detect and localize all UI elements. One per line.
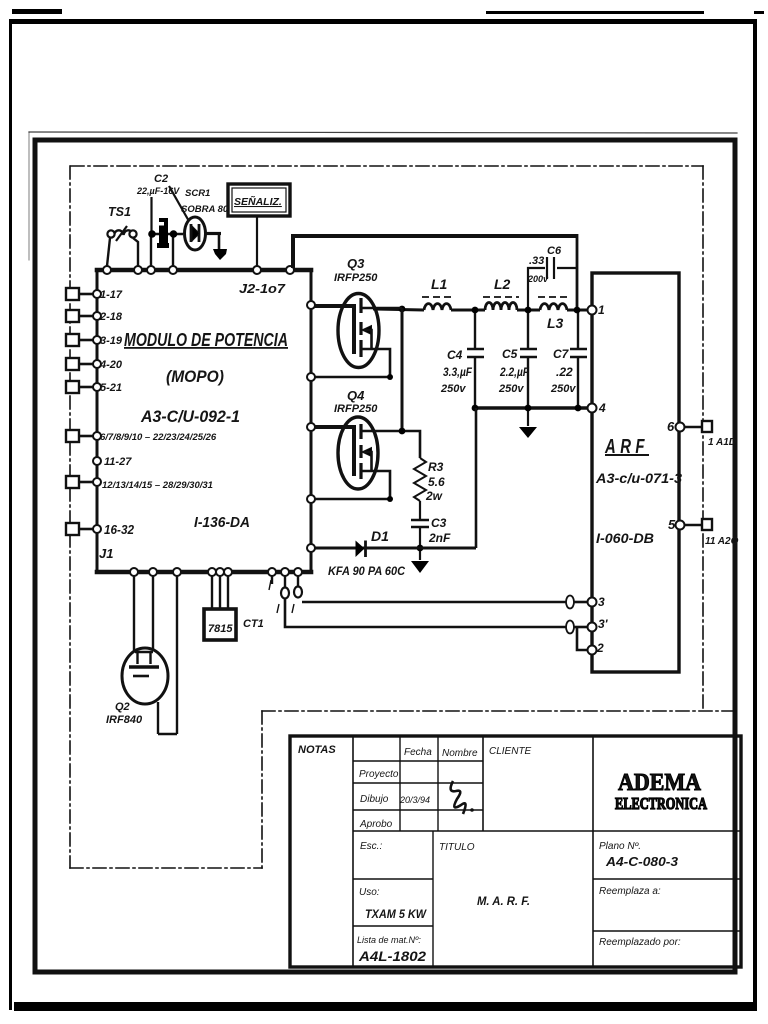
svg-text:A4L-1802: A4L-1802 — [358, 949, 427, 964]
svg-text:Q4: Q4 — [347, 388, 365, 403]
svg-text:2w: 2w — [425, 489, 443, 503]
svg-text:11-27: 11-27 — [104, 456, 132, 468]
svg-text:5-21: 5-21 — [100, 382, 122, 394]
svg-text:TITULO: TITULO — [439, 842, 475, 853]
svg-text:250v: 250v — [550, 383, 576, 395]
svg-text:3.3,µF: 3.3,µF — [443, 365, 473, 379]
svg-text:IRFP250: IRFP250 — [334, 403, 378, 415]
svg-text:250v: 250v — [498, 383, 524, 395]
svg-text:3-19: 3-19 — [100, 335, 123, 347]
svg-text:2.2,µF: 2.2,µF — [499, 365, 529, 379]
svg-text:3': 3' — [598, 617, 609, 631]
svg-text:Q3: Q3 — [347, 256, 365, 271]
svg-text:20/3/94: 20/3/94 — [399, 795, 430, 805]
svg-text:TXAM 5 KW: TXAM 5 KW — [365, 907, 428, 921]
svg-text:D1: D1 — [371, 528, 389, 544]
svg-text:250v: 250v — [440, 383, 466, 395]
svg-text:2nF: 2nF — [428, 531, 451, 545]
svg-text:3: 3 — [598, 595, 605, 609]
svg-text:L3: L3 — [547, 315, 564, 331]
svg-text:ARF: ARF — [604, 436, 649, 458]
svg-text:5.6: 5.6 — [428, 475, 445, 489]
svg-text:L1: L1 — [431, 276, 448, 292]
svg-text:A3-C/U-092-1: A3-C/U-092-1 — [140, 407, 240, 426]
svg-text:NOTAS: NOTAS — [298, 744, 336, 756]
svg-text:ADEMA: ADEMA — [618, 770, 702, 796]
svg-text:(MOPO): (MOPO) — [166, 367, 224, 386]
svg-text:.22: .22 — [556, 365, 573, 379]
svg-text:Fecha: Fecha — [404, 747, 432, 758]
svg-text:2-18: 2-18 — [99, 311, 123, 323]
svg-text:C7: C7 — [553, 347, 570, 361]
svg-text:A3-c/u-071-3: A3-c/u-071-3 — [595, 471, 683, 486]
svg-text:I-060-DB: I-060-DB — [596, 531, 654, 546]
svg-text:Nombre: Nombre — [442, 748, 478, 759]
svg-text:A4-C-080-3: A4-C-080-3 — [605, 855, 678, 869]
svg-text:200v: 200v — [527, 274, 549, 284]
svg-text:J1: J1 — [99, 546, 113, 561]
svg-text:J2-1o7: J2-1o7 — [239, 282, 286, 296]
svg-text:SOBRA 80: SOBRA 80 — [181, 204, 229, 215]
svg-text:C5: C5 — [502, 347, 518, 361]
svg-text:4-20: 4-20 — [99, 359, 123, 371]
svg-text:1-17: 1-17 — [100, 289, 123, 301]
svg-text:2: 2 — [596, 641, 604, 655]
svg-text:12/13/14/15 – 28/29/30/31: 12/13/14/15 – 28/29/30/31 — [102, 480, 213, 491]
svg-text:M. A. R. F.: M. A. R. F. — [477, 894, 530, 908]
svg-text:L2: L2 — [494, 276, 511, 292]
svg-text:11 A2O: 11 A2O — [705, 536, 739, 547]
svg-text:SEÑALIZ.: SEÑALIZ. — [234, 195, 282, 208]
svg-text:16-32: 16-32 — [104, 522, 135, 537]
svg-text:KFA 90 PA 60C: KFA 90 PA 60C — [328, 566, 406, 578]
svg-text:22,µF-16V: 22,µF-16V — [136, 186, 180, 196]
svg-text:Reemplazado por:: Reemplazado por: — [599, 937, 681, 948]
svg-text:Plano Nº.: Plano Nº. — [599, 841, 641, 852]
svg-text:C2: C2 — [154, 173, 168, 185]
svg-text:1: 1 — [598, 303, 605, 317]
svg-text:Proyecto: Proyecto — [359, 769, 399, 780]
svg-text:C6: C6 — [547, 245, 562, 257]
svg-text:Q2: Q2 — [115, 701, 130, 713]
svg-text:TS1: TS1 — [108, 205, 131, 219]
svg-text:.33: .33 — [529, 255, 544, 267]
svg-text:6: 6 — [667, 419, 675, 434]
svg-text:MODULO DE POTENCIA: MODULO DE POTENCIA — [124, 330, 288, 350]
svg-text:6/7/8/9/10 – 22/23/24/25/26: 6/7/8/9/10 – 22/23/24/25/26 — [100, 432, 217, 443]
svg-text:SCR1: SCR1 — [185, 188, 210, 199]
svg-text:C4: C4 — [447, 348, 463, 362]
svg-text:C3: C3 — [431, 516, 447, 530]
svg-text:Uso:: Uso: — [359, 887, 380, 898]
svg-text:Lista de mat.Nº:: Lista de mat.Nº: — [357, 935, 421, 945]
svg-text:1 A1D: 1 A1D — [708, 437, 736, 448]
svg-text:4: 4 — [598, 401, 606, 415]
svg-text:R3: R3 — [428, 460, 444, 474]
svg-text:Reemplaza a:: Reemplaza a: — [599, 886, 661, 897]
svg-text:CT1: CT1 — [243, 618, 264, 630]
svg-text:Aprobo: Aprobo — [359, 819, 393, 830]
svg-text:ELECTRONICA: ELECTRONICA — [615, 794, 708, 813]
svg-text:I-136-DA: I-136-DA — [194, 514, 250, 531]
svg-text:5: 5 — [668, 517, 676, 532]
svg-text:Dibujo: Dibujo — [360, 794, 389, 805]
svg-text:IRFP250: IRFP250 — [334, 272, 378, 284]
svg-text:IRF840: IRF840 — [106, 714, 143, 726]
svg-text:Esc.:: Esc.: — [360, 841, 382, 852]
svg-text:CLIENTE: CLIENTE — [489, 746, 532, 757]
svg-text:7815: 7815 — [208, 623, 233, 635]
